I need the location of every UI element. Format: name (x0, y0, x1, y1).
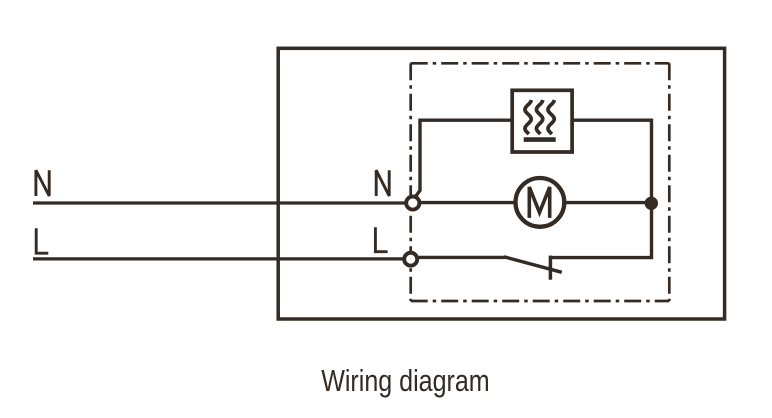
label N (left lead) (36, 170, 49, 196)
heater E1 (wave 1) (525, 100, 531, 134)
motor M1 (circle) (516, 178, 565, 227)
wire N (left lead) (33, 201, 410, 204)
svg-text:Wiring diagram: Wiring diagram (321, 363, 490, 398)
heater E1 (box) (512, 90, 572, 152)
switch S (fixed contact tick) (549, 256, 553, 280)
enclosure outline (278, 48, 724, 319)
motor M1 (letter M) (529, 187, 549, 218)
wire right branch (heater/motor down to switch level) (550, 119, 651, 258)
heater E1 (wave 3) (548, 100, 554, 134)
label L (terminal) (375, 227, 387, 251)
switch S (blade) (504, 257, 562, 273)
label L (left lead) (36, 228, 48, 253)
terminal N (406, 196, 419, 209)
wire N (internal, through motor to junction) (416, 201, 652, 204)
appliance boundary (dash-dot rectangle) (411, 63, 670, 301)
terminal L (404, 253, 417, 266)
label N (terminal) (376, 170, 389, 196)
wire L (left lead) (33, 257, 408, 260)
wire heater branch (left riser from terminal N) (415, 120, 652, 198)
junction node (645, 197, 658, 210)
wire L (terminal to switch) (417, 256, 505, 259)
heater E1 (wave 2) (536, 100, 542, 134)
heater E1 (base bar) (524, 137, 556, 142)
